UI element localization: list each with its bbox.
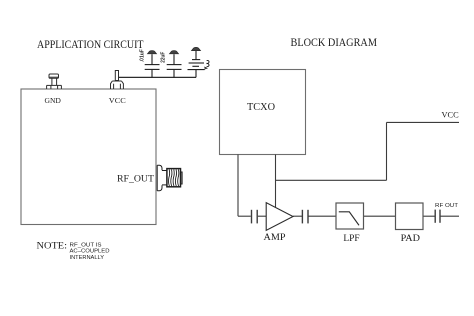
svg-text:NOTE:: NOTE: (37, 241, 68, 251)
svg-text:BLOCK DIAGRAM: BLOCK DIAGRAM (291, 35, 378, 49)
svg-text:PAD: PAD (401, 233, 420, 244)
svg-text:.01uF: .01uF (140, 48, 146, 62)
svg-text:LPF: LPF (343, 233, 360, 244)
svg-text:22uF: 22uF (161, 51, 167, 63)
svg-text:VCC: VCC (442, 111, 459, 120)
svg-text:VCC: VCC (109, 97, 126, 105)
svg-text:INTERNALLY: INTERNALLY (70, 255, 105, 261)
svg-text:TCXO: TCXO (247, 102, 275, 113)
svg-text:RF_OUT IS: RF_OUT IS (70, 242, 103, 248)
svg-text:GND: GND (45, 97, 61, 105)
svg-text:APPLICATION CIRCUIT: APPLICATION CIRCUIT (37, 37, 144, 51)
svg-text:RF_OUT: RF_OUT (117, 174, 154, 185)
svg-text:RF OUT: RF OUT (435, 203, 459, 209)
svg-text:AMP: AMP (264, 232, 287, 243)
svg-text:AC–COUPLED: AC–COUPLED (70, 249, 110, 255)
